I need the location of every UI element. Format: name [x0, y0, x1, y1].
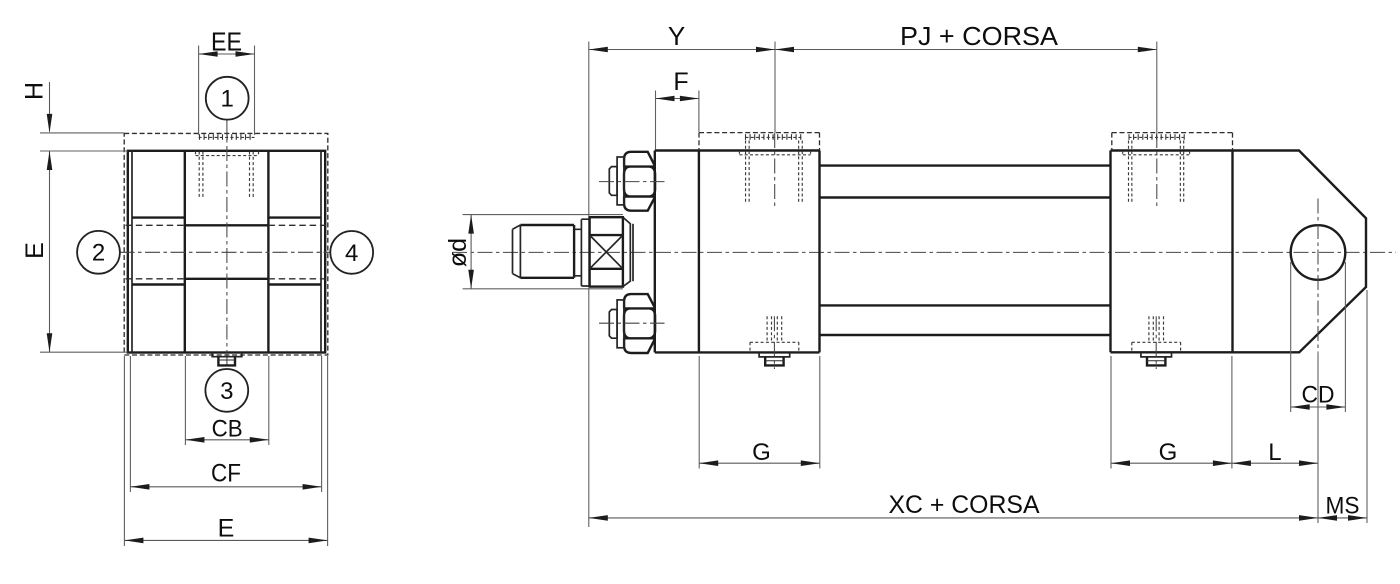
svg-text:CB: CB	[212, 415, 243, 442]
dimension od extension lines	[463, 215, 623, 289]
svg-text:ød: ød	[444, 238, 472, 267]
front cushion plug	[750, 316, 799, 369]
tie rod nut bottom	[624, 294, 655, 353]
side boss line upper	[132, 216, 321, 218]
front port seat hidden line	[739, 151, 810, 155]
dimension G rear extension lines	[1111, 356, 1232, 469]
dimension F	[656, 68, 699, 101]
tie rod centerline bottom	[599, 322, 665, 324]
tie rod centerline top	[599, 181, 665, 183]
dimension H	[21, 82, 53, 133]
port 1 extension line	[774, 42, 776, 134]
tie rod stub top	[609, 167, 617, 196]
rear cushion plug	[1132, 316, 1181, 369]
balloon 1	[206, 77, 249, 120]
dimension CD extension lines	[1291, 262, 1346, 412]
port 1 seat hidden line	[196, 151, 259, 155]
svg-text:H: H	[21, 82, 49, 100]
side port hidden upper	[126, 224, 327, 226]
end view vertical centerline	[226, 121, 228, 370]
rear port boss hidden rect	[1112, 133, 1233, 151]
dimension CB extension lines	[185, 356, 268, 445]
center block left edge	[184, 151, 186, 353]
cylinder tube inner lines	[820, 198, 1111, 306]
front cap face line	[654, 151, 656, 353]
dimension G rear	[1111, 439, 1232, 466]
dimension XC + CORSA	[589, 491, 1318, 521]
rear port thread hidden lines	[1129, 141, 1184, 203]
cap inner edge right	[320, 151, 322, 353]
front cap face square	[128, 151, 325, 353]
tie rod nut top	[624, 152, 655, 211]
svg-text:PJ + CORSA: PJ + CORSA	[900, 21, 1059, 51]
dimension E bottom extension lines	[124, 356, 327, 546]
front port centerline	[774, 133, 776, 208]
dimension MS extension line	[1366, 290, 1368, 523]
rear port extension line	[1156, 42, 1158, 134]
end view bottom plug	[212, 353, 242, 366]
dimension CF	[130, 460, 321, 490]
cylinder axis centerline	[452, 251, 1396, 253]
rod collar	[581, 217, 589, 286]
dimension H extension lines	[40, 133, 128, 151]
dimension E left	[21, 151, 52, 352]
svg-text:L: L	[1268, 439, 1281, 466]
dimension G front extension lines	[699, 356, 820, 469]
rear port centerline	[1156, 133, 1158, 208]
center block right edge	[267, 151, 269, 353]
svg-text:G: G	[1159, 439, 1178, 466]
svg-text:EE: EE	[211, 27, 242, 57]
balloon 3	[205, 369, 248, 412]
dimension EE	[199, 27, 255, 57]
svg-text:F: F	[673, 68, 688, 96]
svg-text:CD: CD	[1302, 382, 1335, 409]
cap inner edge left	[131, 151, 133, 353]
dimension Y extension line	[588, 42, 590, 528]
front port thread ticks	[746, 134, 803, 140]
rear cap hidden outline (end view)	[124, 133, 328, 355]
side boss line lower	[132, 283, 321, 285]
dimension CB	[185, 415, 268, 442]
rod neck	[574, 219, 581, 286]
front cap outline	[655, 151, 820, 353]
svg-text:G: G	[752, 439, 771, 466]
svg-text:Y: Y	[668, 21, 685, 51]
tie rod stub bottom	[609, 310, 617, 339]
rod thread body	[520, 225, 574, 278]
balloon 4	[330, 231, 373, 274]
svg-text:MS: MS	[1326, 493, 1360, 520]
svg-text:E: E	[218, 515, 235, 543]
dimension L extension line	[1317, 352, 1319, 523]
clevis eye hole	[1291, 225, 1346, 280]
rear port thread ticks	[1129, 134, 1185, 140]
svg-text:XC + CORSA: XC + CORSA	[889, 491, 1040, 519]
svg-text:3: 3	[220, 378, 233, 405]
center band lower edge	[185, 278, 269, 280]
port 1 thread hidden lines	[199, 152, 253, 200]
svg-text:2: 2	[92, 240, 105, 267]
dimension E bottom	[124, 515, 327, 544]
dimension CD	[1291, 382, 1346, 410]
svg-text:CF: CF	[211, 460, 241, 488]
end view horizontal centerline	[120, 251, 332, 253]
clevis eye vertical centerline	[1317, 199, 1319, 353]
rod thread end face	[513, 225, 521, 278]
svg-text:4: 4	[345, 240, 358, 267]
dimension E left extension line	[40, 351, 127, 353]
rear cap outline	[1111, 151, 1367, 353]
tie rod washer bottom	[617, 300, 624, 348]
rod wrench flats block	[590, 217, 633, 286]
dimension MS	[1318, 493, 1367, 521]
dimension PJ + CORSA	[775, 21, 1157, 52]
dimension CF extension lines	[130, 356, 321, 492]
dimension od (rod diameter)	[444, 215, 474, 289]
center band upper edge	[185, 224, 269, 226]
port 1 thread ticks	[199, 134, 255, 140]
side port hidden lower	[126, 278, 327, 280]
cylinder tube outer lines	[820, 166, 1111, 335]
dimension EE extension lines	[199, 46, 255, 136]
dimension F extension lines	[656, 91, 699, 150]
svg-text:E: E	[21, 242, 49, 259]
rear port seat hidden line	[1123, 151, 1190, 155]
tie rod washer top	[617, 157, 624, 205]
front port thread hidden lines	[746, 141, 803, 203]
dimension G front	[699, 439, 820, 466]
front port boss hidden rect	[699, 133, 820, 151]
dimension L	[1232, 439, 1318, 466]
balloon 2	[77, 231, 120, 274]
dimension Y	[589, 21, 775, 52]
svg-text:1: 1	[221, 86, 234, 113]
